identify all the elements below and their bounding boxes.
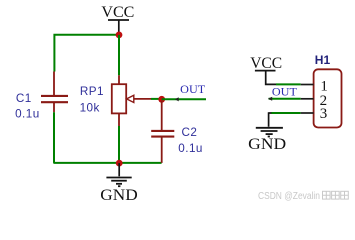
wire OUT stub [162, 98, 206, 100]
svg-text:0.1u: 0.1u [15, 107, 40, 120]
svg-text:OUT: OUT [272, 85, 298, 99]
pin 3 [301, 112, 314, 114]
watermark [258, 191, 348, 202]
capacitor C2 [151, 101, 174, 163]
pin 1 [301, 84, 314, 86]
svg-text:VCC: VCC [250, 55, 282, 72]
wire RP1 to bottom rail [118, 126, 120, 163]
svg-text:0.1u: 0.1u [178, 142, 203, 155]
svg-text:3: 3 [320, 106, 328, 122]
wire VCC to pin 1 [276, 83, 301, 85]
wire top rail [54, 35, 119, 72]
potentiometer RP1 [112, 75, 151, 126]
wire C1 to bottom rail [53, 112, 55, 163]
wire GND to pin 3 [271, 112, 300, 114]
svg-text:GND: GND [248, 136, 286, 153]
junction dot (OUT node) [158, 96, 165, 103]
power port VCC (left) [101, 4, 134, 32]
svg-text:VCC: VCC [101, 4, 134, 21]
wire bottom rail [53, 162, 161, 164]
wire direction tick [175, 97, 179, 101]
svg-text:OUT: OUT [180, 82, 206, 96]
junction dot (VCC rail) [116, 32, 123, 39]
ground GND (right) [248, 112, 286, 153]
svg-text:10k: 10k [80, 101, 100, 114]
svg-text:RP1: RP1 [80, 85, 104, 98]
svg-text:CSDN @Zevalin: CSDN @Zevalin [258, 191, 320, 202]
svg-text:C1: C1 [16, 92, 32, 105]
power port VCC (right) [250, 55, 282, 85]
pin 2 [301, 98, 314, 100]
svg-text:C2: C2 [182, 126, 198, 139]
wire OUT to pin 2 [269, 98, 301, 100]
junction dot (bottom rail) [116, 160, 123, 167]
svg-text:H1: H1 [315, 53, 331, 67]
wire wiper to OUT junction [151, 98, 162, 100]
capacitor C1 [41, 72, 68, 113]
svg-text:GND: GND [100, 187, 137, 204]
connector H1 [314, 53, 342, 128]
wire VCC to RP1 [118, 35, 120, 75]
ground GND (left) [100, 163, 137, 204]
